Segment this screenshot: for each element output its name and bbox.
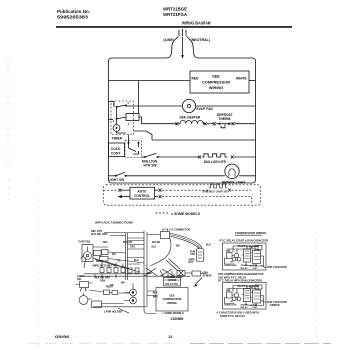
cold control switch dashed box bbox=[125, 141, 142, 158]
svg-text:BLK: BLK bbox=[206, 245, 211, 247]
connector x-mark bbox=[176, 122, 179, 125]
svg-text:BLK-WH ORG: BLK-WH ORG bbox=[91, 233, 108, 236]
svg-text:LAMP HOLDER: LAMP HOLDER bbox=[104, 310, 122, 313]
wire timer to compressor row bbox=[138, 81, 140, 114]
switch light blade bbox=[116, 172, 125, 175]
svg-text:COLD: COLD bbox=[111, 147, 121, 151]
lamp socket box bbox=[92, 301, 102, 308]
svg-text:RELAY: RELAY bbox=[241, 267, 249, 270]
wire arrow out of auto control bbox=[122, 196, 130, 198]
svg-text:POWER CORD: POWER CORD bbox=[167, 277, 183, 279]
svg-text:(LINE): (LINE) bbox=[164, 38, 175, 42]
wire bus stub to timer motor bbox=[109, 119, 114, 121]
connector x-mark bbox=[119, 189, 122, 192]
wire evap fan row bbox=[126, 105, 256, 107]
wire band bus bbox=[80, 274, 190, 276]
power cord plug prongs bbox=[178, 29, 186, 36]
thermostat defrost bbox=[218, 123, 220, 125]
svg-text:WIRING: WIRING bbox=[209, 85, 223, 90]
wire to defrost thermostat bbox=[207, 123, 214, 125]
svg-text:WH: WH bbox=[250, 248, 254, 250]
svg-text:OVERLOAD: OVERLOAD bbox=[224, 264, 237, 267]
legend some models bbox=[156, 212, 169, 214]
wire bus to timer bbox=[109, 102, 115, 107]
connector x-mark bbox=[231, 156, 234, 159]
node light sw terminal bbox=[115, 175, 117, 177]
wire auto control out right top bbox=[155, 189, 159, 191]
svg-text:WH-OR: WH-OR bbox=[152, 242, 160, 244]
svg-text:5995265383: 5995265383 bbox=[57, 15, 89, 20]
wire band to cold control bbox=[144, 270, 172, 313]
svg-text:BLK: BLK bbox=[152, 247, 157, 249]
cold control pictorial box bbox=[164, 278, 181, 287]
wire timer motor link bbox=[117, 120, 127, 133]
wire light row bbox=[109, 175, 116, 177]
wire top harness links bbox=[104, 233, 161, 239]
cold control switch lever bbox=[129, 143, 139, 154]
compressor motor cluster 2 bbox=[234, 293, 238, 297]
wires into compressor box bbox=[147, 291, 156, 296]
svg-text:TIMER: TIMER bbox=[112, 137, 123, 141]
svg-text:2: 2 bbox=[128, 102, 130, 105]
svg-text:WH: WH bbox=[121, 283, 125, 285]
box auto control bbox=[130, 187, 155, 199]
wire color labels bbox=[95, 242, 152, 289]
svg-text:WH: WH bbox=[176, 246, 180, 248]
svg-text:P.T.C. RELAY WITH RUN CAPAC: P.T.C. RELAY WITH RUN CAPACITOR bbox=[218, 280, 262, 283]
svg-text:OR: OR bbox=[117, 260, 121, 262]
wire thermostat to neutral bus bbox=[235, 123, 256, 125]
switch timer cam blade bbox=[117, 105, 126, 119]
motor evap fan bbox=[182, 99, 195, 112]
svg-text:WRT21FGA: WRT21FGA bbox=[163, 12, 187, 17]
svg-text:(NEUTRAL): (NEUTRAL) bbox=[191, 38, 211, 42]
svg-text:NUT: NUT bbox=[189, 261, 194, 264]
svg-text:LIGHT SW: LIGHT SW bbox=[109, 178, 125, 182]
svg-text:SEE: SEE bbox=[212, 74, 220, 79]
wire dashed upper to resistor bbox=[170, 189, 209, 191]
wire auto control out right bottom bbox=[155, 196, 159, 198]
connector x-mark bbox=[159, 195, 162, 198]
svg-text:CAP.: CAP. bbox=[253, 306, 258, 309]
box see compressor wiring bbox=[190, 71, 249, 93]
wire light sw to lamp bbox=[126, 175, 226, 177]
box compressor diagram 2 bbox=[223, 283, 267, 310]
node cold control terminal bbox=[128, 142, 130, 144]
wire resistor to corner bbox=[232, 189, 252, 191]
lamp pictorial bbox=[79, 296, 88, 305]
ground wire with arrowhead bbox=[182, 37, 184, 56]
svg-text:(CONN): (CONN) bbox=[168, 280, 177, 282]
wire cold control to mullion switch bbox=[142, 156, 145, 158]
wire neutral conductor into cabinet bbox=[187, 37, 199, 59]
defrost heater assembly rects bbox=[94, 251, 102, 256]
svg-text:- - = SOME MODELS: - - = SOME MODELS bbox=[159, 311, 184, 315]
svg-text:DEF. HEATER: DEF. HEATER bbox=[180, 116, 201, 120]
svg-text:3: 3 bbox=[113, 120, 115, 123]
svg-text:4: 4 bbox=[128, 123, 130, 126]
overload device 1 bbox=[227, 253, 233, 259]
svg-text:MULLION HTR: MULLION HTR bbox=[204, 160, 227, 164]
wires inside box 2 bbox=[227, 286, 257, 307]
svg-text:WRT21BGE: WRT21BGE bbox=[163, 7, 187, 12]
some-models dashed enclosure bbox=[104, 185, 261, 205]
svg-text:COMPRESSOR: COMPRESSOR bbox=[163, 297, 182, 301]
connector x-mark bbox=[159, 189, 162, 192]
extra harness micro labels bbox=[110, 242, 211, 287]
power cable double curve bbox=[170, 233, 202, 249]
box see compressor wiring (pictorial) bbox=[156, 288, 188, 312]
run capacitor rect 2 bbox=[244, 289, 251, 302]
svg-text:P.T.C. RELAY, START & RUN CAPA: P.T.C. RELAY, START & RUN CAPACITOR bbox=[220, 240, 269, 243]
svg-text:HTR SW: HTR SW bbox=[144, 164, 158, 168]
svg-text:WH: WH bbox=[112, 254, 116, 256]
wire compressor feed bbox=[109, 80, 191, 82]
wire drop from connector bbox=[151, 239, 171, 267]
svg-text:SOME P.T.C. RELAYS: SOME P.T.C. RELAYS bbox=[220, 315, 245, 318]
light switch pictorial bbox=[80, 282, 89, 288]
timer contact pole line bbox=[116, 107, 118, 119]
wire dashed to energy saver bbox=[162, 197, 252, 204]
wire fan to harness diagonals bbox=[93, 247, 144, 268]
connector x-mark bbox=[213, 122, 216, 125]
scan right margin dots bbox=[316, 232, 318, 345]
wires inside box 1 bbox=[227, 246, 257, 267]
wire defrost row left bbox=[142, 123, 177, 125]
svg-text:CAP.: CAP. bbox=[190, 253, 196, 256]
motor timer bbox=[113, 125, 120, 132]
wire compressor to neutral bus bbox=[249, 80, 256, 82]
svg-text:CONT: CONT bbox=[111, 151, 122, 155]
svg-text:COMPRESSOR WIRING: COMPRESSOR WIRING bbox=[235, 231, 266, 235]
wire diag to band bbox=[84, 257, 140, 272]
connector x-mark bbox=[232, 122, 235, 125]
misc terminal rects bbox=[104, 290, 110, 295]
connector x-mark bbox=[198, 156, 201, 159]
svg-text:2150689: 2150689 bbox=[171, 317, 184, 321]
resistor energy saver heater bbox=[209, 184, 228, 188]
svg-text:= SOME MODELS: = SOME MODELS bbox=[171, 212, 201, 216]
wire timer to defrost row bbox=[139, 117, 142, 124]
pin numbers timer bbox=[113, 102, 130, 126]
wire mullion to bus bbox=[234, 156, 256, 158]
svg-text:DEF: DEF bbox=[103, 242, 108, 244]
box compressor diagram 1 bbox=[223, 243, 267, 270]
wire to auto control bbox=[122, 189, 131, 191]
svg-text:Publication No.: Publication No. bbox=[57, 9, 90, 14]
svg-text:BLK: BLK bbox=[153, 291, 158, 294]
timer cam contact box bbox=[126, 114, 139, 121]
svg-text:THERM.: THERM. bbox=[219, 117, 232, 121]
defrost timer dashed box bbox=[111, 101, 134, 135]
left bus vertical pair bbox=[126, 233, 128, 280]
svg-text:ENERGY SVR HT.: ENERGY SVR HT. bbox=[203, 189, 229, 193]
compressor motor cluster 1 bbox=[234, 253, 238, 257]
scan left margin dots bbox=[7, 57, 10, 200]
start relay rect 2 bbox=[253, 290, 261, 303]
cabinet outline left bus bbox=[109, 58, 256, 183]
wire adc input with connector bbox=[104, 189, 119, 191]
label defrost therm bbox=[217, 113, 233, 121]
svg-text:OVERLOAD: OVERLOAD bbox=[224, 304, 237, 307]
harness vertical pair bbox=[144, 231, 147, 278]
svg-text:WIRING: WIRING bbox=[167, 301, 177, 305]
wire timer to cold control bbox=[128, 135, 130, 143]
svg-text:WIRE NUTS (4) TYP: WIRE NUTS (4) TYP bbox=[93, 264, 117, 267]
svg-text:COLD CTRL: COLD CTRL bbox=[165, 284, 179, 286]
arrow to ground screw bbox=[195, 278, 202, 286]
harness ladder rungs bbox=[128, 241, 145, 265]
capacitor run cap pictorial bbox=[197, 249, 204, 262]
header bbox=[57, 7, 211, 26]
multi-wire band connectors row bbox=[100, 268, 104, 273]
switch mullion heater blade bbox=[145, 153, 157, 157]
node timer terminal 3 bbox=[116, 118, 118, 120]
scan bottom edge line bbox=[28, 342, 182, 344]
svg-text:WH: WH bbox=[250, 287, 254, 289]
svg-text:ORG: ORG bbox=[130, 247, 135, 249]
svg-text:WIRING DIAGRAM: WIRING DIAGRAM bbox=[182, 21, 211, 26]
svg-text:EVAP. FAN: EVAP. FAN bbox=[197, 107, 214, 111]
svg-text:TIMER: TIMER bbox=[106, 287, 113, 289]
node mullion sw terminal bbox=[144, 156, 146, 158]
connector x-mark bbox=[204, 122, 207, 125]
svg-text:CAP.: CAP. bbox=[253, 267, 258, 270]
wires lower-left joins bbox=[89, 290, 146, 313]
motor evap fan pictorial bbox=[82, 245, 93, 262]
power cord inline connectors bbox=[166, 259, 181, 272]
svg-text:OR: OR bbox=[230, 301, 234, 303]
header rule bbox=[56, 26, 292, 28]
svg-text:WHT: WHT bbox=[153, 296, 159, 299]
wire timer to cold control row bbox=[134, 131, 153, 140]
svg-text:RELAY: RELAY bbox=[241, 306, 249, 309]
svg-text:A-C CONNECTOR: A-C CONNECTOR bbox=[169, 229, 190, 232]
svg-text:OR: OR bbox=[230, 262, 234, 264]
band x crossings bbox=[144, 268, 174, 276]
svg-text:BLK WH ORG: BLK WH ORG bbox=[95, 278, 110, 280]
svg-text:RED: RED bbox=[192, 76, 200, 80]
overload device 2 bbox=[227, 292, 233, 298]
svg-text:05/96: 05/96 bbox=[55, 334, 71, 339]
wire lamp to bus bbox=[239, 175, 255, 177]
wire nut circles bbox=[130, 289, 137, 296]
lamp refrigerator light bbox=[225, 164, 239, 178]
connector a-c body bbox=[161, 232, 170, 239]
svg-text:EVAP FAN: EVAP FAN bbox=[79, 241, 91, 244]
wire mullion row bbox=[158, 156, 199, 158]
svg-text:SW: SW bbox=[77, 278, 82, 281]
svg-text:1: 1 bbox=[113, 104, 115, 107]
resistor defrost heater bbox=[179, 120, 206, 123]
svg-text:BLK: BLK bbox=[134, 260, 139, 262]
wire line conductor into cabinet bbox=[167, 37, 179, 59]
svg-text:JUMPER: JUMPER bbox=[270, 304, 280, 307]
svg-text:BLK-WH: BLK-WH bbox=[123, 242, 133, 244]
cold control text box bbox=[109, 143, 125, 157]
svg-text:SCREW: SCREW bbox=[203, 274, 213, 277]
connector x-mark bbox=[228, 189, 231, 192]
svg-text:WITH ADC CONNECTIONS: WITH ADC CONNECTIONS bbox=[95, 221, 133, 225]
svg-text:WHITE: WHITE bbox=[236, 76, 247, 80]
resistor mullion heater square wave bbox=[202, 154, 228, 157]
node timer terminal 1 bbox=[116, 106, 118, 108]
svg-text:AUTO: AUTO bbox=[138, 189, 147, 193]
node timer terminal 2 bbox=[125, 105, 127, 107]
svg-text:SEE: SEE bbox=[169, 294, 174, 298]
svg-text:12: 12 bbox=[168, 334, 173, 339]
svg-text:BLK: BLK bbox=[226, 251, 231, 253]
start relay rect 1 bbox=[253, 251, 261, 264]
svg-text:RUN CAPACITOR: RUN CAPACITOR bbox=[267, 266, 287, 269]
svg-text:CONTROL: CONTROL bbox=[134, 194, 150, 198]
wire cold control feed row bbox=[152, 139, 256, 141]
svg-text:COMPRESSOR: COMPRESSOR bbox=[202, 79, 230, 84]
svg-text:GRN: GRN bbox=[100, 281, 105, 283]
run capacitor rect 1 bbox=[244, 249, 251, 262]
svg-text:BLK: BLK bbox=[226, 290, 231, 292]
